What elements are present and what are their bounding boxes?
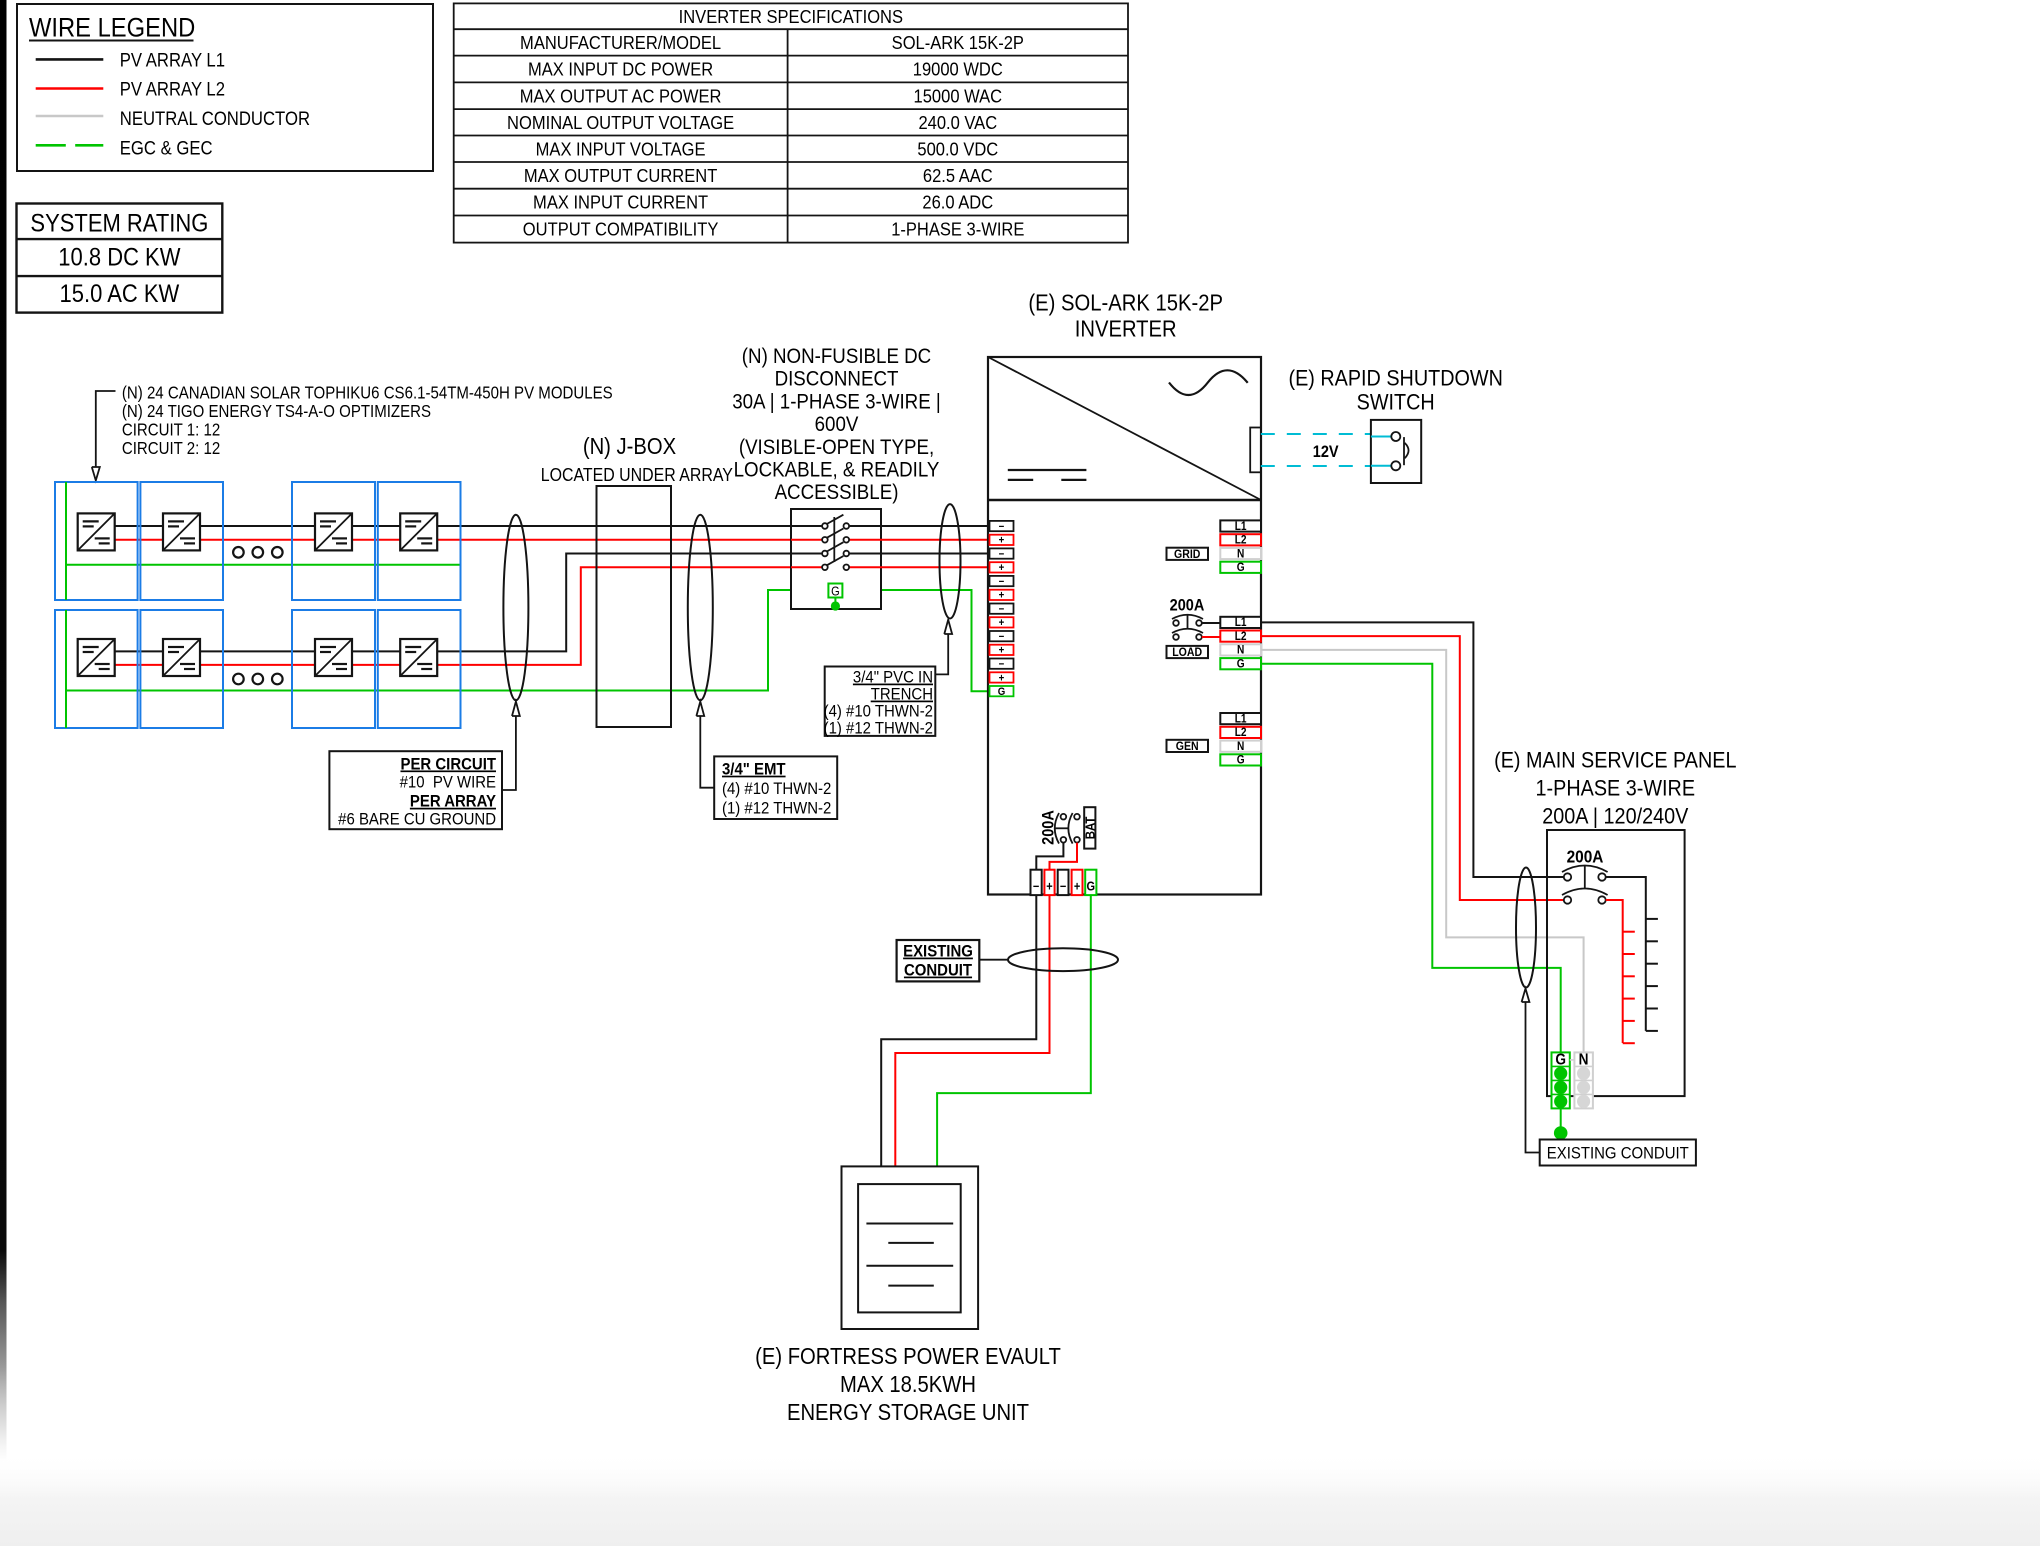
GEN terminals L1 L2 N G [1220, 713, 1261, 726]
conduit ellipse PVC (disconnect to inverter) [940, 504, 961, 618]
PV module blue box row2 #3 [292, 610, 375, 728]
svg-text:12V: 12V [1313, 443, 1339, 461]
disconnect pole 2 [791, 529, 881, 543]
optimizer row1 #1 [78, 513, 115, 550]
BAT breaker CB2 [1055, 813, 1080, 844]
svg-text:NEUTRAL CONDUCTOR: NEUTRAL CONDUCTOR [120, 108, 310, 129]
svg-text:MAX INPUT DC POWER: MAX INPUT DC POWER [528, 59, 713, 80]
svg-text:500.0 VDC: 500.0 VDC [917, 138, 998, 159]
svg-text:200A | 120/240V: 200A | 120/240V [1542, 804, 1689, 828]
EXISTING CONDUIT label (battery) [897, 940, 980, 981]
svg-text:(4) #10 THWN-2: (4) #10 THWN-2 [824, 703, 933, 721]
svg-text:GRID: GRID [1174, 548, 1200, 561]
wire battery negative (black) [881, 895, 1036, 1184]
svg-text:DISCONNECT: DISCONNECT [775, 368, 899, 391]
svg-text:G: G [1555, 1052, 1566, 1069]
svg-text:10.8 DC KW: 10.8 DC KW [58, 243, 181, 271]
inverter DC G terminal [990, 686, 1014, 698]
svg-text:BAT: BAT [1083, 816, 1098, 839]
inverter specifications table [454, 3, 1128, 242]
wire LOAD L2 to panel (red) [1261, 636, 1564, 900]
legend EGC & GEC [36, 137, 213, 158]
svg-text:G: G [1237, 562, 1245, 575]
svg-text:L1: L1 [1235, 617, 1247, 630]
3/4 PVC IN TRENCH label box [824, 667, 936, 738]
svg-text:−: − [999, 604, 1005, 616]
wire BAT breaker to battery terminals [1036, 843, 1063, 870]
svg-text:MAX INPUT VOLTAGE: MAX INPUT VOLTAGE [536, 138, 706, 159]
svg-text:G: G [998, 687, 1006, 699]
wire legend box [17, 4, 433, 171]
conduit ellipse per-circuit (array) [503, 515, 528, 701]
svg-text:(1) #12 THWN-2: (1) #12 THWN-2 [722, 800, 831, 818]
wire EGC array row 1 (green) [66, 564, 461, 566]
svg-text:(E) FORTRESS POWER EVAULT: (E) FORTRESS POWER EVAULT [755, 1343, 1061, 1370]
legend NEUTRAL CONDUCTOR [36, 108, 310, 129]
MSP L2 bus (red) [1606, 900, 1623, 1043]
wire LOAD L1 to panel (black) [1261, 622, 1564, 877]
wire LOAD N to panel (gray) [1261, 650, 1584, 1053]
svg-text:N: N [1237, 644, 1244, 657]
svg-text:+: + [999, 563, 1005, 575]
svg-text:+: + [999, 590, 1005, 602]
MSP branch breaker ticks L1 [1646, 919, 1658, 1031]
main service panel box [1547, 830, 1685, 1096]
svg-text:L2: L2 [1235, 727, 1247, 740]
svg-text:(E) SOL-ARK 15K-2P: (E) SOL-ARK 15K-2P [1028, 289, 1223, 316]
optimizer row1 #4 [400, 513, 437, 550]
LOAD label [1167, 646, 1209, 659]
svg-text:G: G [1237, 754, 1245, 767]
svg-text:MAX OUTPUT AC POWER: MAX OUTPUT AC POWER [520, 85, 722, 106]
leader PER CIRCUIT to conduit [502, 702, 520, 791]
svg-text:(N) 24 TIGO ENERGY TS4-A-O OPT: (N) 24 TIGO ENERGY TS4-A-O OPTIMIZERS [122, 402, 431, 421]
svg-text:1-PHASE 3-WIRE: 1-PHASE 3-WIRE [891, 219, 1024, 240]
svg-text:3/4" PVC IN: 3/4" PVC IN [853, 669, 933, 687]
disconnect pole 1 [791, 515, 881, 529]
leader arrow to PV module [92, 391, 116, 481]
PV module blue box row2 #4 [378, 610, 461, 728]
svg-text:(E) MAIN SERVICE PANEL: (E) MAIN SERVICE PANEL [1494, 748, 1737, 772]
disconnect pole 4 [791, 556, 881, 570]
PV modules annotation text [122, 383, 613, 458]
svg-text:GEN: GEN [1176, 740, 1199, 753]
conduit ellipse EMT (j-box to disconnect) [688, 515, 713, 701]
svg-text:MANUFACTURER/MODEL: MANUFACTURER/MODEL [520, 32, 721, 53]
PV module blue box row1 #4 [378, 482, 461, 600]
continuation dots row 1 [233, 547, 244, 558]
svg-text:#10 PV WIRE: #10 PV WIRE [400, 774, 496, 792]
svg-text:CIRCUIT 2: 12: CIRCUIT 2: 12 [122, 439, 220, 458]
PV module blue box row2 #2 [140, 610, 223, 728]
PV module blue box row1 #2 [140, 482, 223, 600]
svg-text:200A: 200A [1170, 597, 1205, 615]
svg-text:PER CIRCUIT: PER CIRCUIT [400, 756, 496, 774]
wire PV circuit 2 L2 (red) [115, 567, 822, 665]
wire battery positive (red) [895, 895, 1049, 1184]
disconnect pole 3 [791, 542, 881, 556]
svg-text:15.0 AC KW: 15.0 AC KW [60, 280, 180, 308]
svg-text:MAX OUTPUT CURRENT: MAX OUTPUT CURRENT [524, 165, 718, 186]
inverter DC/AC section divider [988, 499, 1261, 502]
optimizer row1 #2 [163, 513, 200, 550]
svg-text:N: N [1579, 1052, 1589, 1069]
battery conduit ellipse [1008, 948, 1118, 971]
svg-text:−: − [999, 576, 1005, 588]
svg-text:1-PHASE 3-WIRE: 1-PHASE 3-WIRE [1536, 776, 1695, 800]
svg-text:(N) 24 CANADIAN SOLAR TOPHIKU6: (N) 24 CANADIAN SOLAR TOPHIKU6 CS6.1-54T… [122, 383, 613, 402]
svg-text:(N) NON-FUSIBLE DC: (N) NON-FUSIBLE DC [742, 345, 931, 368]
ground conductor inside module row1 (green) [65, 482, 67, 600]
svg-text:3/4" EMT: 3/4" EMT [722, 761, 786, 779]
svg-text:OUTPUT COMPATIBILITY: OUTPUT COMPATIBILITY [523, 219, 719, 240]
svg-text:N: N [1237, 740, 1244, 753]
svg-text:+: + [1046, 880, 1053, 894]
svg-text:EXISTING CONDUIT: EXISTING CONDUIT [1547, 1145, 1689, 1163]
BAT breaker 200A label (rotated) [1040, 810, 1058, 845]
wires disconnect to inverter DC terminals [881, 525, 990, 527]
disconnect tie bar [833, 517, 835, 562]
svg-text:SWITCH: SWITCH [1357, 391, 1435, 415]
svg-text:26.0 ADC: 26.0 ADC [922, 192, 993, 213]
GRID label [1167, 548, 1209, 561]
svg-text:−: − [999, 659, 1005, 671]
svg-text:G: G [1237, 658, 1245, 671]
MSP branch breaker ticks L2 [1623, 932, 1635, 1043]
svg-text:−: − [999, 632, 1005, 644]
wire PV circuit 1 L2 (red) [115, 539, 822, 541]
svg-text:(VISIBLE-OPEN TYPE,: (VISIBLE-OPEN TYPE, [739, 436, 934, 459]
svg-text:G: G [831, 585, 840, 599]
svg-text:N: N [1237, 548, 1244, 561]
legend PV ARRAY L2 [36, 79, 225, 100]
leader PVC to conduit [935, 620, 952, 675]
svg-text:−: − [999, 549, 1005, 561]
PV module blue box row1 #1 [55, 482, 138, 600]
AC sine symbol [1169, 370, 1248, 395]
battery plate lines [866, 1224, 953, 1286]
svg-text:WIRE LEGEND: WIRE LEGEND [29, 13, 195, 43]
BAT label box (rotated) [1083, 807, 1098, 848]
svg-text:600V: 600V [815, 413, 859, 436]
svg-text:CONDUIT: CONDUIT [904, 962, 972, 980]
svg-text:(1) #12 THWN-2: (1) #12 THWN-2 [824, 720, 933, 738]
optimizer row2 #1 [78, 639, 115, 676]
svg-text:L1: L1 [1235, 713, 1247, 726]
svg-text:62.5 AAC: 62.5 AAC [923, 165, 993, 186]
GRID terminals L1 L2 N G [1220, 520, 1261, 533]
svg-text:G: G [1087, 880, 1096, 894]
continuation dots row 2 [233, 674, 244, 685]
disconnect ground lug G [828, 584, 842, 611]
svg-text:−: − [999, 521, 1005, 533]
ground conductor inside module row2 (green) [65, 610, 67, 728]
svg-text:LOCATED UNDER ARRAY: LOCATED UNDER ARRAY [541, 465, 733, 485]
svg-text:−: − [1060, 880, 1067, 894]
MSP conduit ellipse [1516, 868, 1536, 988]
svg-text:L2: L2 [1235, 630, 1247, 643]
svg-text:+: + [999, 673, 1005, 685]
inverter RSD connector [1250, 428, 1261, 473]
optimizer row1 #3 [315, 513, 352, 550]
battery outer box [842, 1166, 979, 1329]
leader EMT to conduit [696, 702, 714, 788]
svg-text:EXISTING: EXISTING [903, 943, 973, 961]
svg-text:(N) J-BOX: (N) J-BOX [583, 433, 676, 460]
svg-text:+: + [999, 618, 1005, 630]
svg-text:PER ARRAY: PER ARRAY [410, 793, 496, 811]
RSD signal wires (cyan dashed) [1261, 433, 1371, 435]
svg-text:+: + [999, 645, 1005, 657]
DC disconnect box [791, 509, 881, 609]
PV module blue box row1 #3 [292, 482, 375, 600]
disconnect annotation text [732, 345, 941, 505]
svg-text:LOAD: LOAD [1172, 647, 1202, 660]
svg-text:MAX INPUT CURRENT: MAX INPUT CURRENT [533, 192, 708, 213]
bottom shading [0, 1452, 2040, 1546]
system rating table [17, 204, 223, 313]
svg-text:200A: 200A [1567, 847, 1604, 866]
leader existing conduit to MSP conduit [1522, 989, 1540, 1153]
optimizer row2 #4 [400, 639, 437, 676]
svg-text:INVERTER SPECIFICATIONS: INVERTER SPECIFICATIONS [679, 6, 903, 27]
battery terminal strip [1031, 870, 1042, 895]
svg-text:CIRCUIT 1: 12: CIRCUIT 1: 12 [122, 420, 220, 439]
svg-text:L1: L1 [1235, 520, 1247, 533]
optimizer row2 #2 [163, 639, 200, 676]
optimizer row2 #3 [315, 639, 352, 676]
svg-text:ACCESSIBLE): ACCESSIBLE) [775, 481, 899, 504]
svg-text:EGC & GEC: EGC & GEC [120, 137, 213, 158]
inverter U1 box [988, 357, 1261, 895]
LOAD breaker CB1 [1172, 615, 1220, 640]
MSP main breaker CB3 [1562, 866, 1608, 904]
MSP L1 bus (black) [1606, 877, 1646, 1031]
svg-text:PV ARRAY L1: PV ARRAY L1 [120, 49, 225, 70]
svg-text:ENERGY STORAGE UNIT: ENERGY STORAGE UNIT [787, 1399, 1029, 1426]
inverter DC input terminal strip [990, 521, 1014, 533]
svg-text:+: + [999, 535, 1005, 547]
wire PV circuit 2 L1 (black) [115, 554, 822, 652]
DC symbol [1008, 470, 1087, 480]
PV module blue box row2 #1 [55, 610, 138, 728]
GEC to ground rod (green) [1560, 1108, 1562, 1133]
3/4 EMT label box [714, 756, 837, 819]
wire LOAD G to panel (green) [1261, 664, 1561, 1053]
GEN label [1167, 740, 1209, 753]
svg-text:SOL-ARK 15K-2P: SOL-ARK 15K-2P [892, 32, 1024, 53]
svg-text:(E) RAPID SHUTDOWN: (E) RAPID SHUTDOWN [1288, 366, 1502, 390]
rapid shutdown switch box [1371, 420, 1421, 483]
svg-text:INVERTER: INVERTER [1075, 315, 1177, 342]
svg-text:PV ARRAY L2: PV ARRAY L2 [120, 79, 225, 100]
battery inner box [858, 1184, 961, 1312]
LOAD terminals L1 L2 N G [1220, 617, 1261, 630]
ground bus G [1552, 1052, 1570, 1109]
wire battery ground (green) [937, 895, 1091, 1184]
svg-text:NOMINAL OUTPUT VOLTAGE: NOMINAL OUTPUT VOLTAGE [507, 112, 734, 133]
neutral bus N [1574, 1052, 1593, 1109]
legend PV ARRAY L1 [36, 49, 225, 70]
svg-text:240.0 VAC: 240.0 VAC [918, 112, 997, 133]
svg-text:19000 WDC: 19000 WDC [913, 59, 1003, 80]
svg-text:LOCKABLE, & READILY: LOCKABLE, & READILY [734, 458, 940, 481]
svg-text:SYSTEM RATING: SYSTEM RATING [30, 209, 208, 237]
svg-text:#6 BARE CU GROUND: #6 BARE CU GROUND [338, 810, 496, 828]
svg-text:MAX 18.5KWH: MAX 18.5KWH [840, 1371, 976, 1398]
wire EGC array row 2 to disconnect ground (green) [66, 590, 990, 691]
PER CIRCUIT label box [329, 751, 502, 829]
left edge bar [0, 0, 7, 1462]
svg-text:−: − [1033, 880, 1040, 894]
svg-text:+: + [1074, 880, 1081, 894]
EXISTING CONDUIT label (panel) [1540, 1140, 1696, 1166]
svg-text:L2: L2 [1235, 534, 1247, 547]
svg-text:15000 WAC: 15000 WAC [914, 85, 1003, 106]
J-box [597, 486, 672, 727]
svg-text:TRENCH: TRENCH [871, 686, 933, 704]
svg-text:30A | 1-PHASE 3-WIRE |: 30A | 1-PHASE 3-WIRE | [732, 390, 941, 413]
wire PV circuit 1 L1 (black) [115, 525, 822, 527]
svg-text:(4) #10 THWN-2: (4) #10 THWN-2 [722, 780, 831, 798]
